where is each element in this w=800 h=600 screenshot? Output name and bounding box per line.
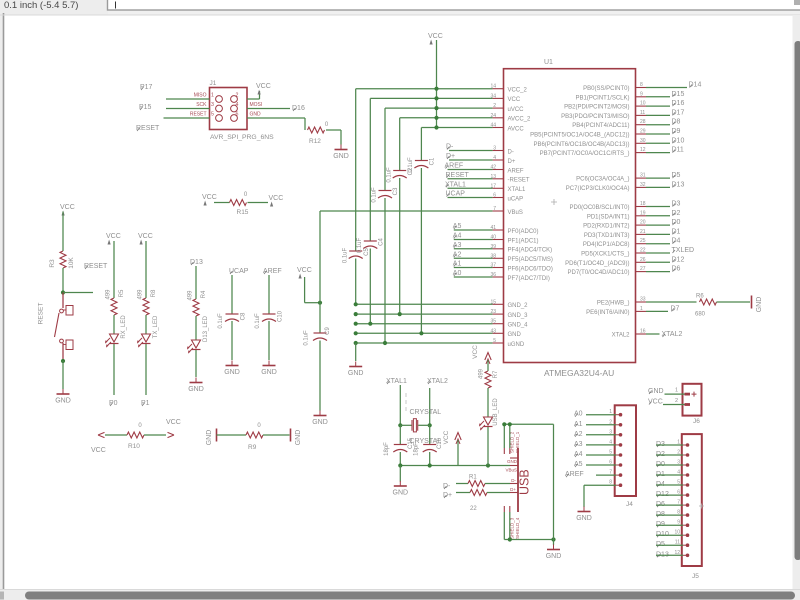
wire col1 to GND symbol <box>355 343 357 361</box>
svg-text:AVCC_2: AVCC_2 <box>508 117 532 123</box>
svg-text:C1: C1 <box>429 157 435 165</box>
svg-text:R9: R9 <box>248 444 257 451</box>
wire J4 pin8 to GND <box>584 485 616 507</box>
wire column top C3 <box>384 108 386 190</box>
wire SCK to J1 <box>166 108 210 110</box>
wire VCC rail row to IC pin <box>385 107 493 109</box>
capacitor C5 0.1uF <box>342 247 370 263</box>
svg-text:R15: R15 <box>237 209 249 216</box>
wire VCC to R10 <box>105 434 127 436</box>
wire R4 to D13_LED <box>195 316 197 340</box>
net label XTAL2 (crystal) <box>427 378 448 385</box>
svg-text:0: 0 <box>138 423 142 429</box>
svg-text:VBuS: VBuS <box>505 468 517 473</box>
net label D- to R1 <box>443 483 468 490</box>
net label A5 to U1 <box>453 223 493 230</box>
svg-text:RESET: RESET <box>38 303 45 325</box>
svg-text:PF5(ADC5/TMS): PF5(ADC5/TMS) <box>508 257 553 263</box>
svg-text:PB4(PCINT4/ADC11): PB4(PCINT4/ADC11) <box>572 123 629 129</box>
net label A0 to J4 <box>574 411 616 418</box>
svg-text:J1: J1 <box>210 80 217 87</box>
net label P1 <box>141 400 150 407</box>
svg-text:VCC: VCC <box>508 97 521 103</box>
svg-text:uGND: uGND <box>508 342 525 348</box>
svg-text:5: 5 <box>677 480 680 486</box>
svg-text:GND_4: GND_4 <box>508 323 529 329</box>
capacitor C9 0.1uF <box>304 327 332 346</box>
svg-text:1: 1 <box>211 92 214 98</box>
LED TX_LED <box>138 315 159 347</box>
svg-text:PD3(TXD1/INT3): PD3(TXD1/INT3) <box>584 233 630 239</box>
svg-text:CRYSTAL: CRYSTAL <box>410 409 442 416</box>
wire VBUS horizontal <box>320 210 493 212</box>
svg-text:11: 11 <box>675 540 680 546</box>
svg-text:D11: D11 <box>672 147 684 154</box>
wire R1 to USB <box>485 483 510 485</box>
svg-text:10K: 10K <box>68 257 75 269</box>
svg-text:22: 22 <box>470 506 477 512</box>
svg-text:P15: P15 <box>139 104 152 111</box>
svg-text:5: 5 <box>609 450 612 456</box>
wire VCC rail row to IC pin <box>370 97 492 99</box>
svg-text:GND: GND <box>507 459 518 464</box>
net label D1 to J5 <box>656 471 683 478</box>
svg-text:PD1(SDA/INT1): PD1(SDA/INT1) <box>587 214 630 220</box>
svg-text:RESET: RESET <box>136 125 160 132</box>
svg-text:GND: GND <box>508 332 522 338</box>
LED RX_LED <box>106 315 127 347</box>
svg-text:PB5(PCINT5/OC1A/OC4B_(ADC12)): PB5(PCINT5/OC1A/OC4B_(ADC12)) <box>530 133 629 139</box>
svg-text:7: 7 <box>609 470 612 476</box>
VCC supplies at R15 <box>202 194 283 207</box>
wire R9 to GND <box>263 434 290 436</box>
svg-text:VCC: VCC <box>472 345 479 359</box>
svg-text:GND: GND <box>188 386 204 393</box>
net label D5 <box>646 172 681 179</box>
svg-text:GND: GND <box>295 430 302 446</box>
svg-text:20: 20 <box>640 220 646 226</box>
svg-text:PF6(ADC6/TDO): PF6(ADC6/TDO) <box>508 266 553 272</box>
svg-text:R10: R10 <box>128 443 140 450</box>
svg-text:P17: P17 <box>140 84 153 91</box>
svg-text:25: 25 <box>640 238 646 244</box>
svg-text:TX_LED: TX_LED <box>153 315 159 338</box>
svg-text:PD5(XCK1/CTS_): PD5(XCK1/CTS_) <box>581 252 629 258</box>
wire column bottom C4 <box>369 249 371 324</box>
VCC supply at J1 <box>256 83 271 95</box>
svg-text:VCC: VCC <box>443 430 450 444</box>
svg-text:RX_LED: RX_LED <box>121 315 127 339</box>
VCC supply at R3 <box>60 204 75 216</box>
net label RESET to U1 <box>446 172 493 179</box>
net label D10 to J5 <box>656 531 683 538</box>
svg-text:VBuS: VBuS <box>508 210 523 216</box>
wire R2 to USB <box>487 492 510 494</box>
wire R5 to LED <box>113 315 115 334</box>
wire VCC rail vertical with junctions <box>434 40 438 130</box>
wire RESET to J1 <box>164 117 210 119</box>
wire GND row to IC pin <box>356 313 493 315</box>
net label XTAL1 to U1 <box>445 181 493 188</box>
J1 pin labels <box>190 93 262 118</box>
command input box <box>108 0 800 10</box>
op-amp U1 ATMEGA32U4-AU body <box>504 59 636 378</box>
net label D4 <box>646 238 681 245</box>
svg-text:VCC: VCC <box>269 195 284 202</box>
svg-text:499: 499 <box>187 290 193 301</box>
resistor R7 499 <box>479 368 500 388</box>
capacitor C8 0.1uF <box>218 312 247 329</box>
svg-text:MISO: MISO <box>194 93 207 99</box>
ground at J4 <box>576 507 592 523</box>
svg-text:GND: GND <box>576 515 592 522</box>
J5 pin numbers <box>674 440 680 556</box>
wire AREF to C10 <box>268 275 270 314</box>
resistor R3 10K <box>49 251 75 269</box>
svg-text:uCAP: uCAP <box>508 196 524 202</box>
net label RESET <box>136 125 160 132</box>
wire column bottom C2 <box>399 178 401 314</box>
svg-text:0: 0 <box>257 423 261 429</box>
svg-text:26: 26 <box>640 257 646 263</box>
svg-text:0.1 inch (-5.4 5.7): 0.1 inch (-5.4 5.7) <box>4 0 78 11</box>
svg-text:1: 1 <box>677 440 680 446</box>
net label A1 to J4 <box>574 421 616 428</box>
net label A4 to U1 <box>453 233 493 240</box>
wire R7 to USB_LED <box>487 388 489 417</box>
svg-text:0.1uF: 0.1uF <box>218 313 224 329</box>
svg-text:0: 0 <box>244 192 248 198</box>
svg-text:15: 15 <box>490 299 496 305</box>
net label D3 to J5 <box>656 441 683 448</box>
net label A2 to U1 <box>453 251 493 258</box>
svg-text:R4: R4 <box>201 290 207 298</box>
ground rotated at R6 <box>752 296 763 313</box>
svg-text:PC7(ICP3/CLK0/OC4A): PC7(ICP3/CLK0/OC4A) <box>566 186 630 192</box>
svg-text:AVCC: AVCC <box>508 126 525 132</box>
connector J5 <box>682 434 704 580</box>
svg-text:1: 1 <box>609 409 612 415</box>
svg-text:21: 21 <box>640 229 646 235</box>
svg-text:R3: R3 <box>49 259 56 268</box>
wire VCC to R5 <box>113 241 115 298</box>
wire J1 pin2 to VCC <box>247 91 260 99</box>
wire R10 to VCC <box>144 434 166 436</box>
wire shield to GND <box>553 540 555 546</box>
gnd bus wire to USB <box>398 463 510 467</box>
capacitor C16 18pF <box>413 437 443 456</box>
resistor R5 499 <box>105 289 125 315</box>
resistor R8 499 <box>137 289 157 315</box>
svg-text:4: 4 <box>677 470 680 476</box>
svg-text:C4: C4 <box>378 238 384 246</box>
svg-text:33: 33 <box>640 297 646 303</box>
wire column bottom C1 <box>420 168 422 333</box>
svg-text:499: 499 <box>479 368 485 379</box>
capacitor C4 0.1uF <box>357 237 385 253</box>
net label D11 <box>646 147 684 154</box>
wire VCC join <box>305 277 320 303</box>
wire R15 <box>214 202 268 204</box>
VCC supply above U1 <box>428 33 443 45</box>
wire column top C5 <box>355 89 357 251</box>
svg-text:6: 6 <box>493 193 496 199</box>
svg-text:7: 7 <box>677 500 680 506</box>
svg-text:R7: R7 <box>493 370 499 378</box>
svg-text:27: 27 <box>640 266 646 272</box>
net label A3 to U1 <box>453 242 493 249</box>
J4 pin numbers <box>609 409 612 486</box>
net label D9 <box>646 128 681 135</box>
wire column top C2 <box>399 118 401 171</box>
svg-text:PD2(RXD1/INT2): PD2(RXD1/INT2) <box>583 224 629 230</box>
net label D0 <box>646 219 681 226</box>
net label A5 to J4 <box>574 461 616 468</box>
wire R8 to LED <box>145 315 147 334</box>
svg-text:12: 12 <box>640 147 646 153</box>
net label D8 <box>646 119 681 126</box>
svg-text:GND: GND <box>250 112 262 118</box>
svg-text:D12: D12 <box>672 256 685 263</box>
ground at USB shield <box>546 545 562 561</box>
svg-text:VCC_2: VCC_2 <box>508 88 528 94</box>
svg-text:J4: J4 <box>626 501 633 508</box>
VCC supply at C9 <box>297 267 312 279</box>
svg-text:5: 5 <box>493 338 496 344</box>
net label D7 <box>646 305 680 312</box>
svg-text:GND: GND <box>206 430 213 446</box>
svg-text:PF0(ADC0): PF0(ADC0) <box>508 229 539 235</box>
net label A3 to J4 <box>574 441 616 448</box>
svg-text:2: 2 <box>677 450 680 456</box>
svg-text:PB7(PCINT7/OC0A/OC1C/RTS_): PB7(PCINT7/OC0A/OC1C/RTS_) <box>540 151 630 157</box>
net label D0 to J5 <box>656 461 683 468</box>
svg-text:J5: J5 <box>692 573 699 580</box>
svg-text:VCC: VCC <box>648 399 663 406</box>
svg-text:3: 3 <box>493 146 496 152</box>
svg-text:0.1uF: 0.1uF <box>372 187 378 203</box>
net label RESET (switch) <box>84 263 108 270</box>
svg-text:24: 24 <box>490 113 496 119</box>
net label A4 to J4 <box>574 451 616 458</box>
svg-text:PE2(HWB_): PE2(HWB_) <box>597 301 630 307</box>
svg-text:U1: U1 <box>544 59 553 66</box>
net label D4 to J5 <box>656 481 683 488</box>
svg-text:PF4(ADC4/TCK): PF4(ADC4/TCK) <box>508 248 553 254</box>
svg-text:0.1uF: 0.1uF <box>255 313 261 329</box>
svg-text:D16: D16 <box>672 100 685 107</box>
svg-text:D10: D10 <box>672 137 685 144</box>
wire column top C4 <box>369 98 371 241</box>
svg-text:GND: GND <box>55 398 71 405</box>
net label UCAP <box>229 268 249 275</box>
svg-text:29: 29 <box>640 129 646 135</box>
svg-text:1: 1 <box>640 306 643 312</box>
net label A0 to U1 <box>453 270 493 277</box>
svg-text:PD6(T1/OC4D_(ADC9)): PD6(T1/OC4D_(ADC9)) <box>565 261 629 267</box>
canvas left border <box>0 15 3 600</box>
svg-text:PB0(SS/PCINT0): PB0(SS/PCINT0) <box>583 86 629 92</box>
ground at C10 <box>261 361 277 377</box>
svg-text:D13: D13 <box>672 181 685 188</box>
svg-text:GND: GND <box>393 490 409 497</box>
net label D14 <box>646 82 701 89</box>
svg-text:VCC: VCC <box>428 33 443 40</box>
net label D16 <box>292 105 305 112</box>
net label D2 <box>646 210 681 217</box>
LED D13_LED <box>188 315 209 352</box>
net label A1 to U1 <box>453 261 493 268</box>
capacitor C2 0.1uF <box>386 167 414 183</box>
svg-text:D14: D14 <box>689 82 702 89</box>
ground at R12 <box>333 145 349 161</box>
resistor R2 22 <box>470 490 487 513</box>
svg-text:D15: D15 <box>672 91 685 98</box>
wire switch to GND, node <box>61 359 65 389</box>
svg-text:12: 12 <box>674 550 680 556</box>
net label P15 <box>139 104 152 111</box>
svg-text:34: 34 <box>490 93 496 99</box>
svg-text:VCC: VCC <box>297 267 312 274</box>
svg-text:USB: USB <box>518 469 532 495</box>
wire column bottom C3 <box>384 198 386 343</box>
svg-text:PB3(PDO/PCINT3/MISO): PB3(PDO/PCINT3/MISO) <box>561 114 629 120</box>
U1 right pins with numbers and names <box>530 82 646 339</box>
resistor R12 0 <box>308 122 329 145</box>
resistor R10 0 <box>127 423 144 450</box>
svg-text:PF7(ADC7/TDI): PF7(ADC7/TDI) <box>508 276 550 282</box>
svg-text:PD4(ICP1/ADC8): PD4(ICP1/ADC8) <box>583 242 630 248</box>
svg-text:GND: GND <box>348 370 364 377</box>
wire GND row to IC pin <box>356 342 493 344</box>
svg-text:4: 4 <box>493 155 496 161</box>
net label D15 <box>646 91 684 98</box>
svg-text:RESET: RESET <box>190 112 207 118</box>
svg-text:AVR_SPI_PRG_6NS: AVR_SPI_PRG_6NS <box>210 134 274 141</box>
net label AREF to U1 <box>445 163 493 170</box>
svg-text:0.1uF: 0.1uF <box>342 247 348 263</box>
net label UCAP to U1 <box>446 191 493 198</box>
net label D13 <box>646 181 684 188</box>
wire shield right vertical <box>553 424 555 539</box>
svg-text:14: 14 <box>490 84 496 90</box>
svg-text:10: 10 <box>674 530 680 536</box>
capacitor C1 0.1uF <box>408 157 436 173</box>
svg-text:GND: GND <box>333 153 349 160</box>
connector J1 AVR_SPI_PRG_6NS <box>210 80 275 141</box>
wire GND row to IC pin <box>356 303 493 305</box>
net label D9 to J5 <box>656 521 683 528</box>
wire gnd drop <box>399 466 401 482</box>
net label VCC to J6 <box>648 399 685 406</box>
svg-text:0.1uF: 0.1uF <box>386 167 392 183</box>
net label P17 <box>140 84 153 91</box>
svg-text:C10: C10 <box>278 310 284 322</box>
wire to C15 <box>399 425 401 444</box>
wires caps to gnd bus <box>400 452 429 466</box>
ground at D13_LED <box>188 378 204 394</box>
svg-text:USB_LED: USB_LED <box>493 398 499 426</box>
svg-text:2: 2 <box>609 419 612 425</box>
wire USB_LED to bus <box>487 427 489 466</box>
svg-text:43: 43 <box>490 328 496 334</box>
svg-text:680: 680 <box>695 312 706 318</box>
svg-text:2: 2 <box>493 103 496 109</box>
svg-text:30: 30 <box>640 138 646 144</box>
wire VCC to R7 <box>487 360 489 371</box>
wire D13_LED to GND <box>195 350 197 377</box>
junctions GND rows <box>368 312 423 345</box>
svg-text:VCC: VCC <box>166 419 181 426</box>
connector USB body <box>504 431 531 539</box>
svg-text:18pF: 18pF <box>413 442 419 456</box>
net label A2 to J4 <box>574 431 616 438</box>
VCC arrow right of R10 <box>166 419 181 438</box>
capacitor C3 0.1uF <box>372 187 400 203</box>
svg-text:XTAL2: XTAL2 <box>612 333 631 339</box>
svg-text:uVCC: uVCC <box>508 107 525 113</box>
net label GND to J6 <box>648 388 685 395</box>
svg-text:R6: R6 <box>696 294 704 300</box>
bottom scrollbar <box>0 589 800 600</box>
svg-text:D-: D- <box>511 478 516 483</box>
switch RESET S1 <box>38 293 73 362</box>
wire USB shields bottom <box>504 512 555 542</box>
svg-text:19: 19 <box>640 210 646 216</box>
ground at cap bus <box>348 362 364 378</box>
svg-text:D+: D+ <box>510 487 516 492</box>
svg-text:J6: J6 <box>693 418 700 425</box>
svg-text:SCK: SCK <box>196 102 207 108</box>
svg-text:MOSI: MOSI <box>250 102 263 108</box>
wire PE2 to R6 <box>646 301 697 303</box>
wire MISO to J1 <box>166 98 210 100</box>
svg-text:AREF: AREF <box>508 168 524 174</box>
wire column bottom C5 <box>355 259 357 305</box>
VCC supply at R8 <box>138 233 153 245</box>
svg-text:PE6(INT6/AIN0): PE6(INT6/AIN0) <box>586 310 629 316</box>
svg-text:R8: R8 <box>151 289 157 297</box>
wire UCAP to C8 <box>231 275 233 314</box>
toolbar <box>0 0 800 15</box>
svg-text:0: 0 <box>325 122 329 128</box>
wire VCC rail row to IC pin <box>400 117 493 119</box>
wire XTAL1 down <box>398 385 402 427</box>
svg-text:3: 3 <box>211 102 214 108</box>
svg-text:PD7(T0/OC4D/ADC10): PD7(T0/OC4D/ADC10) <box>567 270 629 276</box>
ground at crystal <box>393 481 409 497</box>
net label AREF <box>263 268 282 275</box>
svg-text:GND_3: GND_3 <box>508 313 529 319</box>
connector J6 <box>683 384 702 425</box>
svg-text:18pF: 18pF <box>384 442 390 456</box>
wire VCC to R8 <box>145 241 147 298</box>
wire USB shields top <box>502 422 553 448</box>
net label D8 to J5 <box>656 511 683 518</box>
net label D10 <box>646 137 684 144</box>
svg-text:2: 2 <box>675 398 678 404</box>
resistor R1 22 <box>468 475 485 487</box>
svg-text:ATMEGA32U4-AU: ATMEGA32U4-AU <box>544 368 614 378</box>
svg-text:8: 8 <box>640 82 643 88</box>
svg-text:SHIELD_4: SHIELD_4 <box>515 517 520 539</box>
svg-text:PF1(ADC1): PF1(ADC1) <box>508 238 539 244</box>
svg-text:GND: GND <box>546 553 562 560</box>
svg-text:32: 32 <box>640 182 646 188</box>
net label TXLED <box>646 247 694 254</box>
svg-text:3: 3 <box>677 460 680 466</box>
svg-text:C3: C3 <box>393 187 399 195</box>
